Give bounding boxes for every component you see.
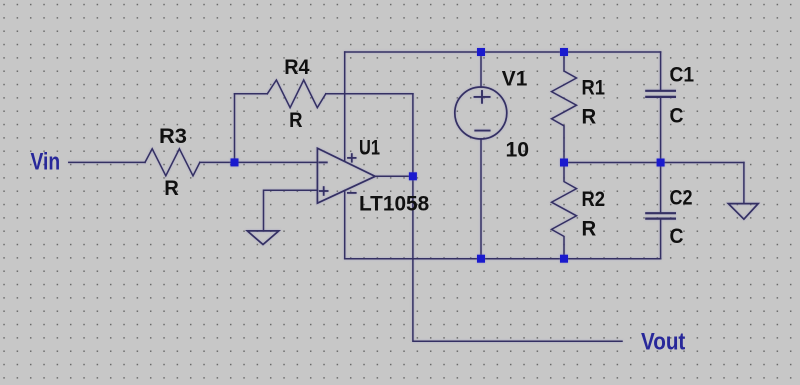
svg-text:R2: R2: [582, 188, 606, 211]
svg-text:Vin: Vin: [31, 149, 61, 176]
svg-text:C: C: [670, 225, 684, 248]
svg-text:R3: R3: [159, 125, 187, 148]
svg-text:U1: U1: [359, 137, 380, 160]
svg-text:V1: V1: [502, 68, 528, 91]
wires and symbols: [69, 52, 758, 341]
svg-text:R: R: [289, 109, 302, 132]
svg-text:C: C: [670, 105, 684, 128]
junction halo: [231, 48, 665, 263]
svg-text:Vout: Vout: [641, 328, 685, 355]
svg-text:C1: C1: [670, 64, 695, 87]
svg-text:R: R: [582, 106, 597, 129]
wire halo: [69, 52, 758, 341]
svg-text:R: R: [164, 177, 179, 200]
svg-text:LT1058: LT1058: [359, 193, 430, 216]
svg-text:10: 10: [506, 138, 530, 161]
svg-text:R4: R4: [284, 56, 310, 79]
svg-text:R1: R1: [582, 77, 606, 100]
svg-text:R: R: [582, 217, 597, 240]
svg-text:C2: C2: [670, 187, 693, 210]
